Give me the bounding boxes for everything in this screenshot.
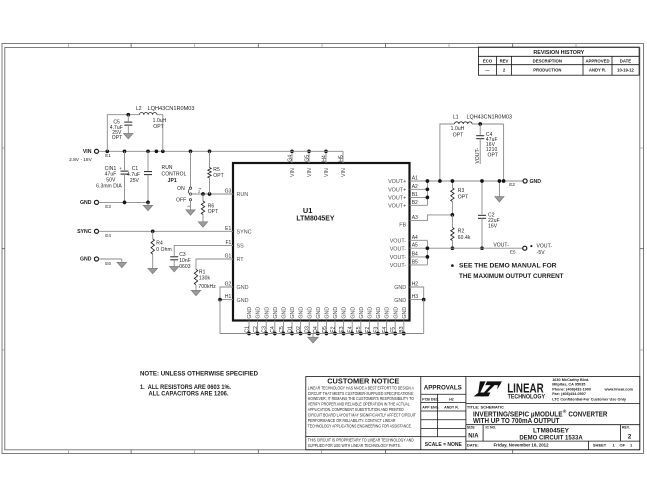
inductor L2 loop wires [107, 115, 139, 152]
svg-text:10-19-12: 10-19-12 [617, 68, 634, 73]
svg-text:0 Ohm: 0 Ohm [156, 247, 171, 253]
U1 pin C4 GND stub [274, 321, 276, 334]
svg-text:E2: E2 [509, 182, 515, 187]
svg-text:PERFORMANCE OR RELIABILITY. C: PERFORMANCE OR RELIABILITY. CONTACT LINE… [308, 418, 396, 423]
svg-text:GND: GND [385, 307, 391, 319]
capacitor C4 [479, 124, 481, 135]
svg-text:REV: REV [500, 59, 509, 64]
svg-text:GND: GND [325, 307, 331, 319]
svg-text:GND: GND [394, 285, 406, 291]
svg-text:6.3mm DIA: 6.3mm DIA [96, 183, 122, 189]
U1 pin C1 GND stub [248, 321, 250, 334]
ground below C3 [170, 267, 179, 272]
svg-text:GND: GND [316, 307, 322, 319]
junction dot R2/VOUT- rail [451, 246, 455, 250]
svg-text:Phone: (408)432-1900: Phone: (408)432-1900 [552, 387, 591, 391]
wire B4 stub [410, 256, 428, 258]
U1 pin F5 GND stub [394, 321, 396, 334]
svg-text:APPROVED: APPROVED [585, 59, 609, 64]
resistor R3 [451, 181, 453, 188]
wire L1 right / C4 top [472, 123, 504, 125]
U1 pin E4 GND stub [351, 321, 353, 334]
svg-text:+: + [119, 166, 122, 171]
U1 pin E5 GND stub [360, 321, 362, 334]
inductor L1 loop wire left [440, 124, 455, 181]
U1 pin C2 GND stub [257, 321, 259, 334]
svg-text:1.0uH: 1.0uH [153, 118, 167, 124]
U1 pin H5 VIN stub [342, 151, 344, 163]
U1 pin D4 GND stub [317, 321, 319, 334]
svg-text:RUN: RUN [162, 165, 173, 171]
ground below R1 [191, 290, 200, 295]
svg-text:GND: GND [264, 307, 270, 319]
svg-text:OPT: OPT [153, 124, 164, 130]
zone tick left border [2, 248, 5, 250]
jumper JP1 shunt bar [187, 189, 190, 193]
svg-text:GND: GND [299, 307, 305, 319]
ground below U1 [312, 334, 314, 338]
svg-text:GND: GND [247, 307, 253, 319]
svg-text:OF: OF [620, 443, 626, 448]
jumper JP1 pin 2 [189, 193, 191, 195]
U1 pin C5 GND stub [282, 321, 284, 334]
junction dot VIN rail [155, 149, 159, 153]
svg-text:GND: GND [273, 307, 279, 319]
svg-text:H5: H5 [338, 155, 344, 162]
svg-text:LTC Confidential-For Customer: LTC Confidential-For Customer Use Only [552, 397, 627, 401]
svg-text:D1: D1 [287, 326, 293, 333]
wire H2 pin [410, 287, 424, 300]
svg-text:CONTROL: CONTROL [162, 172, 187, 178]
svg-text:D2: D2 [296, 326, 302, 333]
svg-text:1630 McCarthy Blvd.: 1630 McCarthy Blvd. [552, 378, 589, 382]
junction dot L2/C5 [126, 113, 130, 117]
svg-text:VOUT+: VOUT+ [388, 188, 406, 194]
svg-text:CONVERTER: CONVERTER [568, 411, 607, 418]
svg-text:REV.: REV. [622, 426, 630, 430]
zone divider ticks bottom border [130, 450, 132, 454]
junction dot rail/L1 left [438, 179, 442, 183]
svg-text:APPROVALS: APPROVALS [424, 385, 462, 392]
svg-text:WITH UP TO 700mA OUTPUT: WITH UP TO 700mA OUTPUT [473, 418, 560, 425]
svg-text:C5: C5 [279, 326, 285, 333]
terminal E1 VIN [94, 149, 98, 153]
svg-text:DATE:: DATE: [467, 442, 479, 447]
svg-text:APPLICATION. COMPONENT SUBSTIT: APPLICATION. COMPONENT SUBSTITUTION AND … [308, 407, 404, 412]
U1 pin D2 GND stub [300, 321, 302, 334]
svg-text:FB: FB [399, 222, 406, 228]
svg-text:LINEAR TECHNOLOGY HAS MADE A B: LINEAR TECHNOLOGY HAS MADE A BEST EFFORT… [308, 385, 414, 390]
sheet inner border [5, 48, 640, 450]
junction dot VIN/R5 [208, 149, 212, 153]
U1 pin F3 GND stub [377, 321, 379, 334]
op-amp U1 LTM8045EY module body [233, 163, 410, 321]
svg-text:VOUT+: VOUT+ [388, 204, 406, 210]
ground below C5 [124, 134, 133, 139]
wire VOUT+ rail A1 to E2 [410, 180, 524, 182]
svg-text:GND: GND [237, 285, 249, 291]
wire SS pin to C3 [174, 245, 233, 256]
terminal E3 GND [94, 200, 98, 204]
wire H3 down to bottom ground rail [423, 300, 425, 334]
svg-text:NOTE: UNLESS OTHERWISE SPECIFI: NOTE: UNLESS OTHERWISE SPECIFIED [140, 370, 258, 377]
svg-text:VIN: VIN [83, 149, 92, 155]
svg-text:C4: C4 [270, 326, 276, 333]
jumper JP1 wire from VIN rail [190, 151, 192, 187]
svg-text:16V: 16V [488, 224, 498, 230]
resistor R1 [194, 269, 197, 284]
junction dot G2/H1 [218, 298, 222, 302]
U1 pin F2 GND stub [368, 321, 370, 334]
svg-text:RUN: RUN [237, 192, 249, 198]
junction dot bus/A5 [426, 246, 430, 250]
U1 pin G4 VIN stub [291, 151, 293, 163]
svg-text:LTM8045EY: LTM8045EY [533, 427, 570, 434]
svg-text:R2: R2 [458, 229, 465, 235]
svg-text:GND: GND [342, 307, 348, 319]
resistor R6 [202, 194, 204, 201]
svg-text:CIRCUIT THAT MEETS CUSTOMER-SU: CIRCUIT THAT MEETS CUSTOMER-SUPPLIED SPE… [308, 391, 414, 396]
svg-text:ANDY R.: ANDY R. [589, 68, 606, 73]
svg-text:OPT: OPT [453, 132, 464, 138]
svg-text:CIRCUIT BOARD LAYOUT MAY SIGNI: CIRCUIT BOARD LAYOUT MAY SIGNIFICANTLY A… [308, 413, 416, 418]
svg-text:PCB DES.: PCB DES. [422, 397, 439, 401]
svg-text:GND: GND [307, 307, 313, 319]
svg-text:D3: D3 [305, 326, 311, 333]
svg-text:G4: G4 [287, 155, 293, 162]
svg-text:GND: GND [333, 307, 339, 319]
U1 pin D5 GND stub [325, 321, 327, 334]
svg-text:ALL CAPACITORS ARE 1206.: ALL CAPACITORS ARE 1206. [149, 391, 229, 397]
junction dot VIN/C1 [146, 149, 150, 153]
resistor R2 [451, 228, 454, 241]
svg-text:H4: H4 [321, 155, 327, 162]
wire JP1 pin3 to ground [190, 201, 192, 210]
jumper JP1 pin 1 [189, 187, 191, 189]
wire VOUT- rail A5 to E5 [410, 247, 523, 249]
svg-text:Friday, November 16, 2012: Friday, November 16, 2012 [493, 443, 549, 448]
svg-text:1. ALL RESISTORS ARE 0603 1%.: 1. ALL RESISTORS ARE 0603 1%. [140, 385, 231, 391]
svg-text:SHEET: SHEET [593, 443, 607, 448]
svg-text:LQH43CN1R0M03: LQH43CN1R0M03 [148, 106, 195, 112]
ground on VOUT+ rail [498, 181, 500, 197]
svg-text:C3: C3 [262, 326, 268, 333]
svg-text:E5: E5 [510, 250, 516, 255]
wire VOUT- bus vertical [426, 240, 428, 265]
wire B5 stub [410, 264, 428, 266]
wire G2 pin [220, 287, 233, 300]
ground below R6 [198, 222, 207, 227]
revision history table [478, 47, 639, 75]
jumper JP1 pin 3 [189, 199, 191, 201]
junction dot rail/ground [498, 179, 502, 183]
svg-text:DESCRIPTION: DESCRIPTION [533, 59, 562, 64]
junction dot rail/C2 top [480, 179, 484, 183]
wire E6 to ground [99, 258, 122, 260]
U1 pin H4 VIN stub [325, 151, 327, 163]
svg-text:1.0uH: 1.0uH [451, 126, 465, 132]
svg-text:SUPPLIED FOR USE WITH LINEAR T: SUPPLIED FOR USE WITH LINEAR TECHNOLOGY … [308, 443, 401, 448]
svg-text:C1: C1 [244, 326, 250, 333]
svg-text:VOUT-: VOUT- [390, 263, 407, 269]
junction dot L1/C4 [478, 122, 482, 126]
svg-text:SS: SS [237, 244, 245, 250]
svg-text:TITLE: SCHEMATIC: TITLE: SCHEMATIC [467, 404, 504, 409]
date row divider [466, 440, 640, 442]
wire bottom ground rail [220, 333, 424, 335]
svg-text:700kHz: 700kHz [198, 284, 216, 290]
svg-text:VOUT-: VOUT- [390, 255, 407, 261]
wire A2 stub [410, 188, 428, 190]
size row divider [466, 424, 640, 426]
capacitor C1 [147, 151, 149, 170]
junction dot C2/VOUT- rail [480, 246, 484, 250]
svg-text:-5V: -5V [537, 250, 546, 256]
junction dot rail/R3 [451, 179, 455, 183]
terminal E6 GND [94, 257, 98, 261]
svg-text:www.linear.com: www.linear.com [604, 387, 634, 391]
junction dot SYNC/R4 [151, 229, 155, 233]
resistor R5 [209, 151, 211, 167]
svg-text:OFF: OFF [176, 198, 186, 204]
svg-text:OPT: OPT [213, 173, 224, 179]
wire SYNC to U1 [99, 230, 234, 232]
svg-text:GND: GND [402, 307, 408, 319]
svg-text:APP ENG.: APP ENG. [422, 406, 439, 410]
customer notice divider [306, 436, 421, 438]
svg-text:VOUT-: VOUT- [390, 239, 407, 245]
wire B1 stub [410, 196, 428, 198]
svg-text:N/A: N/A [468, 434, 479, 440]
wire FB pin to R3/R2 node [410, 215, 453, 221]
svg-text:GND: GND [359, 307, 365, 319]
svg-text:0603: 0603 [179, 264, 191, 270]
zone numeral marks left border [3, 147, 5, 149]
svg-text:VOUT-: VOUT- [493, 242, 509, 248]
capacitor CIN1 [124, 151, 126, 170]
svg-text:GND: GND [394, 298, 406, 304]
svg-text:VERIFY PROPER AND RELIABLE OPE: VERIFY PROPER AND RELIABLE OPERATION IN … [308, 402, 411, 407]
title block outer box [306, 377, 640, 450]
svg-text:SYNC: SYNC [237, 230, 252, 236]
resistor R4 [152, 231, 154, 239]
svg-text:®: ® [563, 408, 567, 415]
svg-text:GND: GND [350, 307, 356, 319]
svg-text:L2: L2 [136, 106, 142, 112]
svg-text:GND: GND [80, 200, 92, 206]
svg-text:ECO: ECO [483, 59, 493, 64]
svg-text:VOUT-: VOUT- [390, 246, 407, 252]
ground at E6 [117, 262, 126, 267]
terminal E2 GND [523, 179, 527, 183]
zone numeral marks right border [641, 147, 643, 149]
svg-text:2.8V - 18V: 2.8V - 18V [69, 157, 92, 163]
U1 pin D1 GND stub [291, 321, 293, 334]
zone tick right border [640, 248, 644, 250]
svg-text:HOWEVER, IT REMAINS THE CUSTOM: HOWEVER, IT REMAINS THE CUSTOMER'S RESPO… [308, 396, 415, 401]
svg-text:GND: GND [80, 257, 92, 263]
svg-text:VOUT-: VOUT- [475, 148, 481, 164]
svg-text:TECHNOLOGY APPLICATIONS ENGINE: TECHNOLOGY APPLICATIONS ENGINEERING FOR … [308, 423, 412, 428]
wire VOUT+ bus vertical [426, 181, 428, 205]
svg-text:VIN: VIN [290, 168, 296, 177]
svg-text:LQH43CN1R0M03: LQH43CN1R0M03 [467, 115, 513, 121]
junction dot bus/B4 [426, 255, 430, 259]
svg-text:THIS CIRCUIT IS PROPRIETARY TO: THIS CIRCUIT IS PROPRIETARY TO LINEAR TE… [308, 438, 414, 443]
svg-text:DEMO CIRCUIT 1533A: DEMO CIRCUIT 1533A [519, 435, 583, 441]
svg-text:GND: GND [237, 298, 249, 304]
terminal E5 VOUT- [523, 246, 527, 250]
svg-text:ANDY R.: ANDY R. [444, 406, 459, 410]
title divider [466, 403, 640, 405]
junction dot VIN/JP1 [189, 149, 193, 153]
svg-text:OPT: OPT [208, 209, 219, 215]
ground below R4 [148, 268, 157, 273]
svg-text:JP1: JP1 [168, 178, 177, 184]
junction dot RUN/R6 [201, 192, 205, 196]
zone numeral marks bottom border [68, 451, 70, 454]
svg-text:PRODUCTION: PRODUCTION [533, 68, 561, 73]
svg-text:R4: R4 [156, 241, 163, 247]
svg-text:VIN: VIN [307, 168, 313, 177]
wire E3 ground rail [99, 201, 149, 203]
U1 pin F4 GND stub [386, 321, 388, 334]
svg-text:VOUT-: VOUT- [537, 244, 553, 250]
svg-text:GND: GND [282, 307, 288, 319]
svg-text:OPT: OPT [112, 135, 123, 141]
svg-text:THE MAXIMUM OUTPUT CURRENT: THE MAXIMUM OUTPUT CURRENT [459, 273, 564, 280]
svg-text:DATE: DATE [620, 59, 632, 64]
svg-text:C2: C2 [253, 326, 259, 333]
svg-text:H2: H2 [449, 397, 454, 401]
svg-text:RT: RT [237, 257, 245, 263]
svg-text:VOUT+: VOUT+ [388, 179, 406, 185]
zone divider ticks top border [130, 44, 132, 48]
svg-text:Fax: (408)434-0507: Fax: (408)434-0507 [552, 392, 586, 396]
svg-text:L1: L1 [453, 115, 459, 121]
svg-text:R3: R3 [458, 188, 465, 194]
ground below JP1 [186, 210, 195, 215]
junction dot C1/ground rail [146, 201, 150, 205]
U1 pin B3 GND stub [403, 321, 405, 334]
U1 pin E2 GND stub [334, 321, 336, 334]
svg-text:SCALE = NONE: SCALE = NONE [425, 442, 463, 448]
junction dot VIN/L2 left [105, 149, 109, 153]
svg-text:GND: GND [368, 307, 374, 319]
svg-text:GND: GND [393, 307, 399, 319]
U1 pin E3 GND stub [343, 321, 345, 334]
wire H3 pin [410, 299, 424, 301]
svg-text:SEE THE DEMO MANUAL FOR: SEE THE DEMO MANUAL FOR [459, 263, 557, 270]
capacitor C3 [170, 256, 178, 258]
U1 pin G5 VIN stub [308, 151, 310, 163]
svg-text:E1: E1 [105, 153, 111, 158]
wire JP1 pin2 to RUN pin [192, 193, 233, 195]
junction dot VIN/CIN1 [123, 149, 127, 153]
svg-text:2: 2 [628, 434, 632, 441]
wire RT pin to R1 [196, 259, 233, 269]
svg-text:E3: E3 [105, 204, 111, 209]
svg-text:OPT: OPT [488, 153, 499, 159]
U1 pin D3 GND stub [308, 321, 310, 334]
svg-text:SIZE: SIZE [467, 426, 475, 430]
zone numeral marks top border [68, 44, 70, 47]
svg-text:Milpitas, CA 95035: Milpitas, CA 95035 [552, 383, 585, 387]
svg-text:SYNC: SYNC [77, 229, 92, 235]
capacitor C2 [481, 181, 483, 214]
svg-text:GND: GND [530, 179, 542, 185]
svg-text:D5: D5 [322, 326, 328, 333]
wire L2 right to VIN rail [157, 115, 163, 152]
svg-text:ON: ON [177, 186, 185, 192]
svg-text:GND: GND [376, 307, 382, 319]
junction dot VIN/L2 right [161, 149, 165, 153]
svg-text:OPT: OPT [458, 194, 469, 200]
wire H1 pin [220, 299, 233, 301]
svg-text:GND: GND [290, 307, 296, 319]
junction dot H2/H3 [422, 298, 426, 302]
junction dot rail right [502, 179, 506, 183]
junction dot bus/A1 rail [426, 179, 430, 183]
inductor L1 [454, 122, 472, 124]
svg-text:VIN: VIN [341, 168, 347, 177]
junction dot bus/A2 [426, 187, 430, 191]
junction dots on VIN rail at G4 G5 H4 [290, 149, 294, 153]
ground below C1 [147, 202, 149, 205]
svg-text:G5: G5 [304, 155, 310, 162]
svg-text:130k: 130k [199, 276, 211, 282]
svg-text:25V: 25V [130, 178, 140, 184]
junction dot FB node [451, 213, 455, 217]
svg-text:E6: E6 [105, 261, 111, 266]
wire A4 stub [410, 239, 428, 241]
note demo manual [451, 264, 454, 267]
node VOUT- -5V label [530, 245, 532, 247]
U1 pin C3 GND stub [265, 321, 267, 334]
Linear Technology logo [474, 381, 502, 396]
wire VIN rail [99, 150, 344, 152]
terminal E4 SYNC [94, 229, 98, 233]
svg-text:E4: E4 [105, 233, 111, 238]
junction dot bus/B1 [426, 196, 430, 200]
wire H1 down to bottom ground rail [219, 300, 221, 334]
wire B2 stub [410, 204, 428, 206]
svg-text:IC NO.: IC NO. [486, 426, 497, 430]
svg-text:TECHNOLOGY: TECHNOLOGY [508, 395, 545, 401]
junction dot RUN/R5 [208, 192, 212, 196]
svg-text:2: 2 [198, 190, 200, 194]
svg-text:GND: GND [256, 307, 262, 319]
junction dot CIN1/ground rail [123, 201, 127, 205]
svg-text:R1: R1 [199, 269, 206, 275]
svg-text:LTM8045EY: LTM8045EY [296, 214, 334, 223]
svg-text:VIN: VIN [324, 168, 330, 177]
wire down to VOUT+ rail [503, 124, 505, 181]
svg-text:60.4k: 60.4k [458, 235, 471, 241]
svg-text:CUSTOMER NOTICE: CUSTOMER NOTICE [327, 376, 399, 385]
inductor L2 [139, 112, 157, 114]
svg-text:D4: D4 [313, 326, 319, 333]
svg-text:REVISION HISTORY: REVISION HISTORY [533, 50, 584, 56]
capacitor C5 [127, 115, 129, 122]
svg-text:LINEAR: LINEAR [507, 381, 544, 395]
svg-text:VOUT+: VOUT+ [388, 196, 406, 202]
